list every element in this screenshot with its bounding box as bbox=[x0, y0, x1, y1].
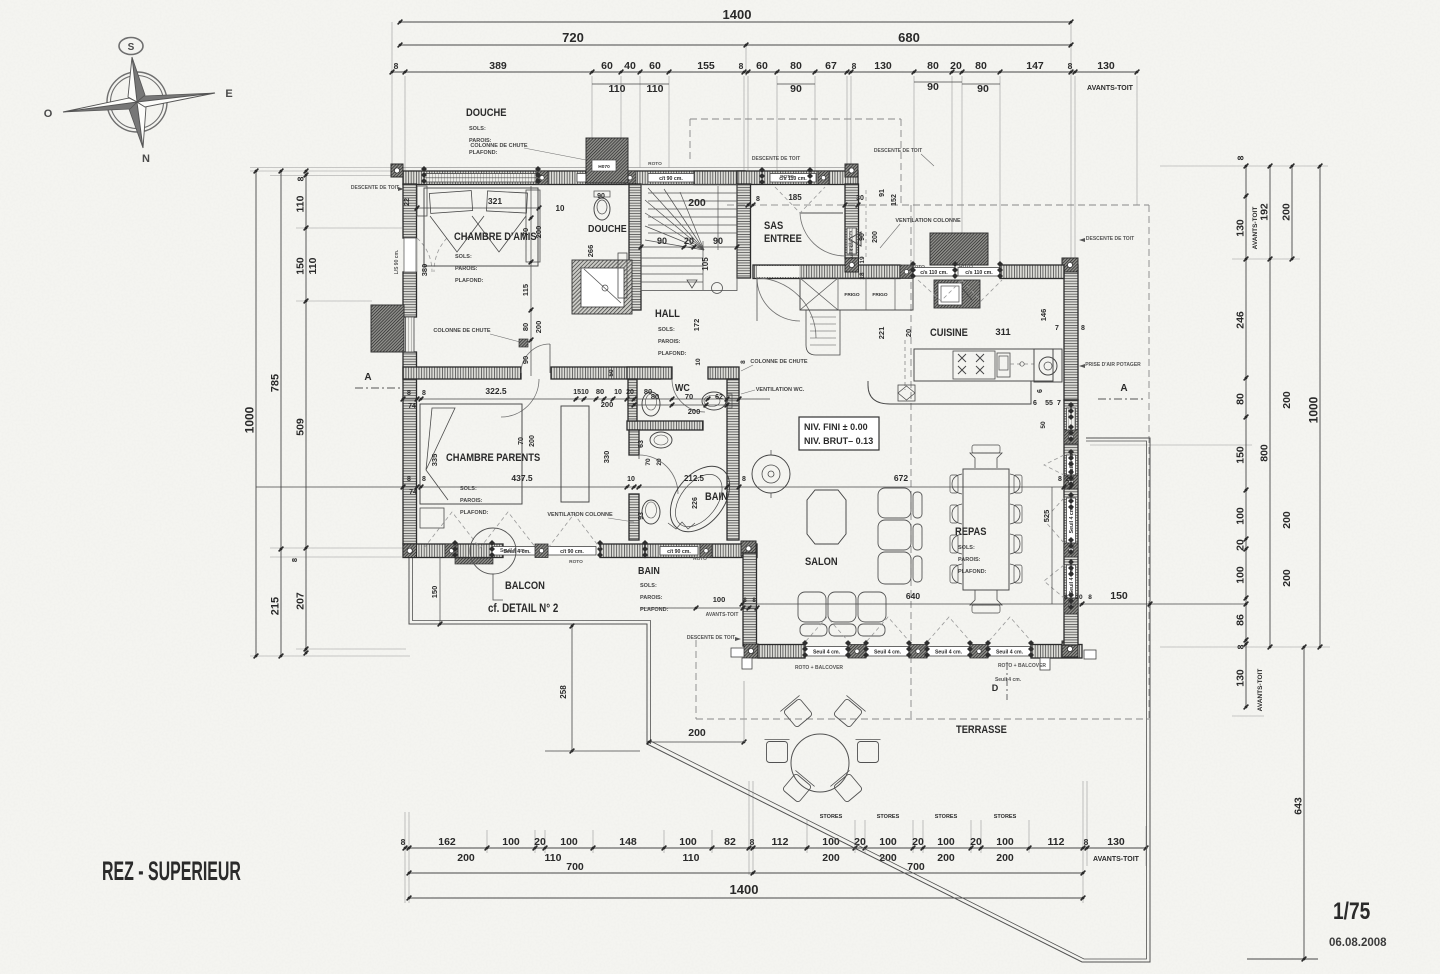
svg-text:1/75: 1/75 bbox=[1333, 897, 1370, 925]
svg-text:207: 207 bbox=[295, 592, 307, 610]
wall bain west lower bbox=[629, 494, 639, 540]
dim chain bottom detail bbox=[401, 836, 1149, 850]
svg-text:O: O bbox=[44, 108, 53, 120]
svg-text:115: 115 bbox=[521, 284, 530, 296]
svg-text:110: 110 bbox=[683, 852, 700, 864]
window swing dashes parents bbox=[424, 512, 600, 548]
svg-text:8: 8 bbox=[1088, 594, 1092, 601]
wall exterior north sas bbox=[737, 171, 858, 185]
dim 200 terrace bbox=[647, 681, 747, 744]
svg-text:200: 200 bbox=[529, 435, 536, 447]
svg-text:PLAFOND:: PLAFOND: bbox=[658, 351, 687, 357]
door arc chambre amis bbox=[521, 344, 550, 373]
kitchen shelf unit bbox=[806, 310, 840, 355]
svg-text:130: 130 bbox=[1097, 60, 1115, 72]
svg-text:10: 10 bbox=[556, 204, 565, 213]
svg-text:PLAFOND:: PLAFOND: bbox=[455, 278, 484, 284]
svg-text:60: 60 bbox=[649, 60, 661, 72]
corner post north-west bbox=[391, 164, 403, 177]
svg-text:20: 20 bbox=[626, 389, 634, 396]
svg-text:200: 200 bbox=[1281, 511, 1293, 529]
post sas door bbox=[845, 258, 859, 272]
dashed ridge line vertical bbox=[910, 205, 912, 719]
kitchen sink top bbox=[934, 280, 980, 308]
wall chambre amis/parents divider B bbox=[551, 367, 660, 379]
window tick east 565 bbox=[1068, 559, 1074, 577]
kitchen sink unit east bbox=[1034, 349, 1062, 382]
jamb salon s3 bbox=[970, 645, 988, 659]
svg-text:1400: 1400 bbox=[730, 882, 759, 897]
svg-text:ROTO: ROTO bbox=[780, 174, 794, 180]
svg-text:155: 155 bbox=[697, 60, 715, 72]
window tick north 424 bbox=[421, 166, 427, 184]
dim chain 1400 top bbox=[398, 7, 1074, 24]
dim extension lines right bbox=[1090, 166, 1330, 959]
window north sas bbox=[770, 174, 816, 183]
dim chain 1000 right bbox=[1307, 164, 1323, 650]
window south bain bbox=[660, 547, 698, 556]
svg-text:ROTO: ROTO bbox=[648, 161, 662, 167]
svg-text:FRIGO: FRIGO bbox=[844, 292, 859, 298]
dim extension lines left bbox=[250, 168, 410, 657]
svg-text:TERRASSE: TERRASSE bbox=[956, 724, 1007, 736]
wall west salon bbox=[743, 553, 757, 646]
svg-text:AVANTS-TOIT: AVANTS-TOIT bbox=[1257, 669, 1264, 712]
svg-text:93: 93 bbox=[638, 512, 645, 520]
dining table repas bbox=[950, 445, 1022, 613]
wall exterior south chambre parents A bbox=[403, 544, 503, 558]
svg-text:AVANTS-TOIT: AVANTS-TOIT bbox=[1093, 856, 1140, 863]
terrain diagonal line bbox=[647, 438, 1150, 962]
svg-text:82: 82 bbox=[724, 836, 736, 848]
entry arrow sas bbox=[849, 232, 861, 246]
wall wc-bain / hall divider bbox=[727, 379, 739, 540]
svg-text:311: 311 bbox=[995, 327, 1011, 338]
bed chambre parents bbox=[420, 404, 522, 504]
window swing dashes salon south bbox=[806, 617, 1031, 641]
svg-text:200: 200 bbox=[601, 400, 614, 409]
svg-text:1510: 1510 bbox=[573, 389, 589, 396]
window north chambre amis bbox=[424, 174, 538, 183]
wall exterior east kitchen bbox=[1064, 265, 1078, 400]
entry door sas bbox=[800, 213, 845, 256]
toilet wc 1 bbox=[642, 392, 660, 416]
svg-text:146: 146 bbox=[1039, 309, 1048, 322]
svg-text:20: 20 bbox=[656, 458, 663, 466]
svg-text:192: 192 bbox=[1259, 203, 1271, 221]
svg-text:110: 110 bbox=[609, 83, 626, 95]
dashed roof overhang sas porch bbox=[690, 119, 1149, 719]
svg-text:389: 389 bbox=[489, 60, 507, 72]
dashed line vertical kitchen bbox=[904, 340, 906, 390]
window tick nw 810 bbox=[807, 167, 813, 185]
kitchen tall cabinets bbox=[800, 278, 913, 310]
svg-text:22: 22 bbox=[404, 198, 411, 206]
dim 640/150 bbox=[740, 590, 1249, 606]
svg-text:PLAFOND:: PLAFOND: bbox=[640, 607, 669, 613]
svg-text:130: 130 bbox=[1107, 836, 1125, 848]
corner post salon SE bbox=[1062, 641, 1078, 657]
svg-text:6: 6 bbox=[1037, 389, 1044, 393]
section marker A east bbox=[1098, 383, 1143, 399]
svg-text:8: 8 bbox=[401, 837, 406, 847]
dim sub labels 200 right bbox=[1281, 391, 1293, 587]
svg-text:8: 8 bbox=[750, 837, 755, 847]
svg-text:62: 62 bbox=[715, 394, 723, 401]
window south salon 3 bbox=[927, 647, 970, 657]
window tick east 543 bbox=[1068, 537, 1074, 555]
svg-text:DESCENTE DE TOIT: DESCENTE DE TOIT bbox=[874, 148, 922, 154]
svg-text:VENTILATION COLONNE: VENTILATION COLONNE bbox=[895, 218, 961, 224]
svg-text:ROTO: ROTO bbox=[959, 264, 973, 270]
window swing dashes sas bbox=[775, 187, 825, 213]
wardrobe chambre amis bbox=[526, 190, 540, 262]
svg-text:150: 150 bbox=[1110, 590, 1128, 602]
dim 150 balcon bbox=[430, 557, 442, 626]
wall stubs salon se bbox=[1040, 650, 1096, 670]
svg-text:63: 63 bbox=[638, 440, 645, 448]
window north douche bbox=[577, 174, 624, 183]
dim line chambre amis vertical bbox=[521, 186, 543, 376]
svg-text:8: 8 bbox=[852, 61, 857, 71]
svg-text:80: 80 bbox=[927, 60, 939, 72]
corner post sas NE bbox=[845, 164, 858, 177]
svg-text:100: 100 bbox=[822, 836, 840, 848]
window tick north 538 bbox=[535, 166, 541, 184]
toilet wc 2 bbox=[702, 392, 732, 410]
niveau box bbox=[799, 417, 879, 450]
window tick salon 927 bbox=[924, 640, 930, 658]
labels STORES bottom bbox=[820, 814, 1017, 820]
svg-text:PAROIS:: PAROIS: bbox=[658, 339, 681, 345]
svg-text:266: 266 bbox=[586, 245, 595, 258]
svg-text:90: 90 bbox=[790, 83, 802, 95]
column circle salon bbox=[752, 450, 790, 498]
corner post south-west bbox=[403, 544, 417, 558]
svg-text:200: 200 bbox=[688, 727, 706, 739]
jamb salon s1 bbox=[848, 645, 866, 659]
svg-text:NIV. BRUT– 0.13: NIV. BRUT– 0.13 bbox=[804, 436, 873, 446]
window tick salon 970 bbox=[967, 640, 973, 658]
svg-text:150: 150 bbox=[430, 586, 439, 599]
svg-text:SOLS:: SOLS: bbox=[640, 583, 657, 589]
svg-text:80: 80 bbox=[521, 323, 530, 331]
jamb south bain bbox=[700, 544, 712, 558]
svg-text:PAROIS:: PAROIS: bbox=[958, 557, 981, 563]
svg-text:CHAMBRE D'AMIS: CHAMBRE D'AMIS bbox=[454, 231, 537, 243]
kitchen lower counter bbox=[868, 381, 1031, 404]
svg-text:REPAS: REPAS bbox=[955, 526, 987, 538]
svg-text:30: 30 bbox=[856, 195, 864, 202]
svg-text:A: A bbox=[1120, 383, 1127, 394]
svg-text:215: 215 bbox=[270, 597, 282, 615]
svg-text:1400: 1400 bbox=[723, 7, 752, 22]
svg-text:70: 70 bbox=[518, 437, 525, 445]
svg-text:643: 643 bbox=[1293, 797, 1305, 815]
svg-text:70: 70 bbox=[645, 458, 652, 466]
svg-text:110: 110 bbox=[307, 257, 319, 274]
svg-text:DESCENTE DE TOIT: DESCENTE DE TOIT bbox=[687, 635, 735, 641]
svg-text:HALL: HALL bbox=[655, 308, 680, 320]
svg-text:330: 330 bbox=[602, 451, 611, 464]
svg-text:200: 200 bbox=[937, 852, 955, 864]
svg-text:185: 185 bbox=[788, 193, 802, 202]
window glazing lines north bbox=[424, 177, 538, 179]
svg-text:60: 60 bbox=[601, 60, 613, 72]
svg-text:130: 130 bbox=[1235, 219, 1247, 237]
svg-text:200: 200 bbox=[996, 852, 1014, 864]
corner post kitchen NE bbox=[1062, 258, 1078, 272]
svg-text:105: 105 bbox=[701, 257, 710, 271]
svg-text:112: 112 bbox=[772, 836, 789, 848]
svg-text:A: A bbox=[364, 372, 371, 383]
side table chambre parents bbox=[420, 508, 444, 528]
svg-text:147: 147 bbox=[1026, 60, 1044, 72]
svg-text:672: 672 bbox=[894, 473, 908, 483]
svg-text:Seuil 4 cm.: Seuil 4 cm. bbox=[500, 548, 527, 554]
svg-text:509: 509 bbox=[295, 418, 307, 436]
jamb north 1 bbox=[536, 171, 548, 185]
svg-text:20: 20 bbox=[950, 60, 962, 72]
svg-text:8: 8 bbox=[296, 176, 306, 181]
svg-text:110: 110 bbox=[647, 83, 664, 95]
svg-text:N: N bbox=[142, 153, 150, 165]
svg-text:c/s 110 cm.: c/s 110 cm. bbox=[920, 270, 948, 276]
roto labels top bbox=[648, 161, 973, 270]
window tick nw 762 bbox=[759, 167, 765, 185]
wall exterior south bain bbox=[645, 544, 757, 558]
svg-text:91: 91 bbox=[879, 189, 886, 197]
svg-text:258: 258 bbox=[559, 685, 568, 699]
svg-text:c/t 90 cm.: c/t 90 cm. bbox=[667, 549, 691, 555]
svg-text:8: 8 bbox=[394, 61, 399, 71]
kitchen island bbox=[914, 349, 1053, 381]
svg-text:100: 100 bbox=[1235, 507, 1247, 525]
svg-text:H070: H070 bbox=[598, 164, 610, 170]
svg-text:20: 20 bbox=[912, 836, 924, 848]
dim line parents top bbox=[401, 386, 770, 410]
svg-text:PRISE D'AIR POTAGER: PRISE D'AIR POTAGER bbox=[1085, 362, 1141, 368]
dim chain left detail bbox=[295, 169, 309, 656]
jamb sas bbox=[818, 171, 829, 185]
dim sub labels 110/90 top bbox=[592, 81, 1000, 95]
svg-text:ROTO: ROTO bbox=[569, 559, 583, 565]
svg-text:STORES: STORES bbox=[877, 814, 900, 820]
svg-text:525: 525 bbox=[1042, 510, 1051, 523]
svg-text:8: 8 bbox=[1236, 644, 1246, 649]
svg-text:8: 8 bbox=[1068, 61, 1073, 71]
wall exterior south salon B bbox=[1031, 645, 1082, 659]
svg-text:100: 100 bbox=[713, 595, 726, 604]
svg-text:1000: 1000 bbox=[243, 406, 257, 433]
dim chain 1000 left bbox=[243, 169, 259, 659]
jamb north 2 bbox=[624, 171, 636, 185]
svg-text:BAIN: BAIN bbox=[638, 565, 660, 577]
svg-text:150: 150 bbox=[1235, 446, 1247, 464]
dim chain 785/215 left bbox=[270, 169, 284, 659]
window tick east 598 bbox=[1068, 592, 1074, 610]
svg-text:AVANTS-TOIT: AVANTS-TOIT bbox=[706, 612, 739, 618]
svg-text:8: 8 bbox=[290, 558, 299, 562]
svg-text:80: 80 bbox=[975, 60, 987, 72]
svg-text:200: 200 bbox=[534, 321, 543, 334]
svg-text:150: 150 bbox=[295, 257, 307, 275]
svg-text:BAIN: BAIN bbox=[705, 491, 728, 503]
window north kitchen 2 bbox=[958, 268, 1000, 277]
detail circle balcon bbox=[470, 528, 516, 600]
svg-text:ROTO: ROTO bbox=[693, 556, 707, 562]
dim chain 700/700 bottom bbox=[407, 861, 1086, 875]
window tick kitchen 1000 bbox=[997, 261, 1003, 279]
svg-text:74: 74 bbox=[409, 489, 417, 496]
svg-text:AVANTS-TOIT: AVANTS-TOIT bbox=[1087, 85, 1134, 92]
svg-text:c/t 90 cm.: c/t 90 cm. bbox=[659, 176, 683, 182]
dim 525 rot repas bbox=[1042, 487, 1052, 604]
balcony slab edge bbox=[409, 557, 651, 744]
wall west sas bbox=[737, 184, 751, 278]
window tick salon 805 bbox=[802, 640, 808, 658]
window tick salon 909 bbox=[906, 640, 912, 658]
svg-text:Seuil 4 cm.: Seuil 4 cm. bbox=[874, 649, 902, 655]
svg-text:20: 20 bbox=[1065, 476, 1073, 483]
wall wc west bbox=[628, 379, 637, 421]
svg-text:8: 8 bbox=[1058, 476, 1062, 483]
window tick east 475 bbox=[1068, 469, 1074, 487]
label hall 10-50 bbox=[608, 358, 747, 377]
svg-text:DESCENTE DE TOIT: DESCENTE DE TOIT bbox=[351, 185, 399, 191]
svg-text:100: 100 bbox=[937, 836, 955, 848]
compass rose bbox=[44, 38, 233, 166]
window tick east 408 bbox=[1068, 402, 1074, 420]
svg-text:20: 20 bbox=[1075, 594, 1083, 601]
svg-text:19: 19 bbox=[859, 256, 866, 264]
svg-text:100: 100 bbox=[560, 836, 578, 848]
coffee table salon bbox=[807, 490, 846, 544]
svg-text:BALCON: BALCON bbox=[505, 580, 545, 592]
svg-text:REZ - SUPERIEUR: REZ - SUPERIEUR bbox=[102, 856, 241, 886]
svg-text:ROTO: ROTO bbox=[911, 264, 925, 270]
shower enclosure douche bbox=[572, 260, 632, 314]
svg-text:CUISINE: CUISINE bbox=[930, 327, 968, 339]
window tick kitchen 913 bbox=[910, 261, 916, 279]
svg-text:c/s 110 cm.: c/s 110 cm. bbox=[965, 270, 993, 276]
svg-text:8: 8 bbox=[1081, 325, 1085, 332]
colonne de chute block north bbox=[586, 138, 628, 183]
window south parents 2 bbox=[548, 547, 596, 556]
svg-text:90: 90 bbox=[713, 236, 723, 246]
svg-text:VENTILATION COLONNE: VENTILATION COLONNE bbox=[547, 512, 613, 518]
post south bain east bbox=[741, 541, 756, 556]
svg-text:246: 246 bbox=[1235, 311, 1247, 329]
jamb kitchen n1 bbox=[900, 265, 913, 279]
svg-text:20: 20 bbox=[684, 236, 694, 246]
jamb east 1 bbox=[1064, 430, 1078, 444]
dim 100 avant toit balcon bbox=[640, 595, 759, 618]
svg-text:E: E bbox=[225, 88, 232, 100]
window tick south 600 bbox=[597, 540, 603, 558]
svg-text:67: 67 bbox=[825, 60, 837, 72]
svg-text:8: 8 bbox=[742, 476, 746, 483]
window south parents 1 bbox=[492, 547, 542, 556]
svg-text:110: 110 bbox=[545, 852, 562, 864]
jamb east 2 bbox=[1064, 475, 1078, 489]
svg-text:PAROIS:: PAROIS: bbox=[640, 595, 663, 601]
wall bain west upper bbox=[629, 430, 639, 455]
svg-text:20: 20 bbox=[904, 329, 913, 337]
wall chambre amis/parents divider A bbox=[403, 367, 521, 379]
dim line sas bbox=[727, 204, 858, 206]
dim chain 720/680 bbox=[398, 30, 1074, 47]
window tick east 498 bbox=[1068, 492, 1074, 510]
window swing dashes salon east bbox=[1044, 455, 1064, 598]
svg-text:200: 200 bbox=[872, 231, 879, 243]
svg-text:335: 335 bbox=[430, 454, 439, 467]
svg-text:8: 8 bbox=[407, 476, 411, 483]
svg-text:Seuil 4 cm.: Seuil 4 cm. bbox=[935, 649, 963, 655]
wardrobe chambre parents bbox=[561, 406, 589, 502]
svg-text:DOUCHE: DOUCHE bbox=[588, 223, 627, 235]
door opening sas-hall bbox=[757, 266, 799, 277]
window north kitchen 1 bbox=[913, 268, 955, 277]
svg-text:321: 321 bbox=[488, 196, 502, 206]
wall exterior west lower bbox=[403, 352, 417, 544]
svg-text:50: 50 bbox=[608, 369, 615, 377]
section marker D south bbox=[992, 662, 1007, 700]
svg-text:152: 152 bbox=[891, 194, 898, 206]
sofa right salon bbox=[878, 488, 922, 584]
svg-text:8: 8 bbox=[407, 390, 411, 397]
colonne de chute label wc bbox=[741, 359, 808, 371]
svg-text:SOLS:: SOLS: bbox=[958, 545, 975, 551]
svg-text:WC: WC bbox=[675, 382, 690, 394]
dim 321 chambre amis bbox=[415, 196, 565, 213]
svg-text:7: 7 bbox=[1057, 400, 1061, 407]
svg-text:130: 130 bbox=[1235, 669, 1247, 687]
bidet bain bbox=[642, 500, 660, 524]
window tick south 455 bbox=[452, 540, 458, 558]
wall north kitchen east part bbox=[1000, 265, 1064, 279]
svg-text:86: 86 bbox=[1235, 614, 1247, 626]
svg-text:680: 680 bbox=[898, 30, 920, 45]
wall exterior south chambre parents B bbox=[600, 544, 645, 558]
svg-text:55: 55 bbox=[1045, 400, 1053, 407]
svg-text:8: 8 bbox=[740, 360, 747, 364]
svg-text:226: 226 bbox=[692, 497, 699, 509]
dim chain top detail bbox=[390, 60, 1140, 74]
svg-text:8: 8 bbox=[1236, 155, 1246, 160]
svg-text:200: 200 bbox=[688, 407, 701, 416]
dim labels parents rot bbox=[430, 435, 611, 466]
svg-text:50: 50 bbox=[1040, 421, 1047, 429]
svg-text:SALON: SALON bbox=[805, 556, 838, 568]
corner post salon SW bbox=[744, 644, 758, 658]
svg-text:L/S 90 cm.: L/S 90 cm. bbox=[394, 249, 400, 274]
svg-text:1000: 1000 bbox=[1307, 396, 1321, 423]
svg-text:200: 200 bbox=[1281, 203, 1293, 221]
window south salon 2 bbox=[866, 647, 909, 657]
bathtub bain bbox=[658, 455, 741, 543]
svg-text:S: S bbox=[128, 42, 135, 53]
svg-text:221: 221 bbox=[877, 327, 886, 340]
svg-text:STORES: STORES bbox=[994, 814, 1017, 820]
svg-text:D: D bbox=[992, 683, 999, 693]
descente de toit label salon sw bbox=[687, 635, 741, 641]
descente labels top bbox=[351, 148, 934, 191]
planter block west bbox=[371, 305, 404, 352]
side table chambre amis bbox=[417, 186, 427, 216]
door arc chambre parents bbox=[501, 379, 539, 417]
svg-text:200: 200 bbox=[688, 197, 706, 209]
